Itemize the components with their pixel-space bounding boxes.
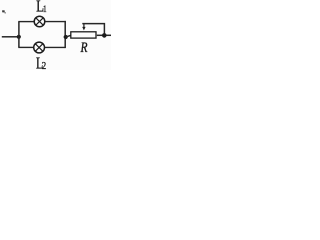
label L2 [36, 54, 46, 73]
wire lamp L2 to right branch [45, 46, 65, 48]
wire left branch vertical [18, 22, 20, 48]
wire right lead [97, 34, 111, 36]
svg-text:R: R [80, 40, 88, 56]
label L1 [36, 0, 47, 16]
rheostat R body [71, 32, 96, 38]
label R [80, 40, 88, 56]
wire slider bar [82, 24, 104, 35]
lamp L1 [34, 16, 45, 27]
node right lead junction [102, 33, 107, 38]
wire to lamp L1 [18, 21, 34, 23]
svg-text:2: 2 [42, 61, 46, 70]
stray mark [2, 10, 6, 13]
wire right branch vertical [64, 21, 66, 48]
node right junction [64, 35, 68, 39]
wire left lead [2, 36, 17, 38]
wire to lamp L2 [18, 46, 33, 48]
rheostat slider arrow [82, 24, 85, 31]
wire lamp L1 to right branch [45, 21, 66, 23]
svg-text:1: 1 [43, 4, 47, 14]
wire junction to rheostat [66, 35, 71, 37]
node left junction [17, 35, 21, 39]
lamp L2 [34, 42, 45, 53]
